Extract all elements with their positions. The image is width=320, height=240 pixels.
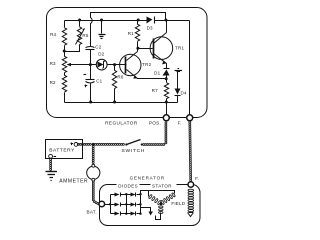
label R1	[128, 31, 134, 36]
node ground top	[100, 19, 103, 22]
wire node to ammeter	[92, 146, 94, 164]
svg-text:C1: C1	[96, 78, 102, 83]
resistor R7	[164, 79, 168, 103]
label AMMETER	[59, 178, 88, 184]
resistor R1	[135, 21, 139, 49]
wire BAT to bridge	[105, 204, 111, 206]
node R1 bottom / TR1 base	[136, 47, 139, 50]
wire top rail right segment	[155, 20, 190, 22]
wire F to generator field	[189, 121, 192, 181]
label D1	[154, 71, 160, 76]
node R6 bottom	[113, 101, 116, 104]
svg-text:STATOR: STATOR	[152, 183, 172, 188]
label R6	[117, 75, 123, 80]
transistor TR1	[138, 21, 173, 69]
svg-text:D2: D2	[98, 51, 104, 56]
label F. (regulator)	[178, 121, 182, 126]
switch	[125, 140, 143, 146]
node R4/R3 junction	[63, 50, 66, 53]
label R4	[50, 32, 56, 37]
label R7	[152, 88, 158, 93]
diode D3	[147, 17, 155, 24]
node battery/switch/ammeter	[92, 143, 95, 146]
label SWITCH	[122, 148, 146, 154]
svg-text:TR1: TR1	[175, 46, 184, 51]
label D3	[147, 25, 153, 30]
wire switch to POS corner	[143, 144, 165, 146]
svg-text:R3: R3	[50, 61, 56, 66]
svg-text:R7: R7	[152, 88, 158, 93]
svg-text:R4: R4	[50, 32, 56, 37]
node R7 bottom rail	[165, 101, 168, 104]
wire up to POS terminal	[165, 122, 167, 144]
ground (above D4)	[175, 69, 183, 72]
bridge diodes (6 rectifier diodes)	[111, 193, 141, 216]
battery + terminal	[71, 143, 78, 147]
label BATTERY	[49, 147, 75, 153]
label F. (generator)	[195, 176, 199, 181]
node A	[89, 63, 92, 66]
label C1	[96, 78, 102, 83]
svg-text:F.: F.	[178, 121, 182, 126]
capacitor C1	[86, 65, 95, 103]
node C1 bottom	[89, 101, 92, 104]
ground (top rail)	[99, 21, 106, 39]
wire to POS terminal	[166, 103, 168, 115]
label BAT.	[87, 209, 97, 214]
label D4	[180, 90, 186, 95]
svg-text:R5: R5	[82, 33, 88, 38]
label GENERATOR	[130, 176, 165, 181]
label DIODES	[117, 182, 140, 189]
C1 minus sign	[84, 74, 87, 76]
svg-text:TR2: TR2	[142, 62, 151, 67]
stator coil right arm	[161, 193, 176, 205]
terminal POS	[163, 115, 169, 121]
wire battery to node	[77, 143, 91, 145]
ammeter	[87, 164, 100, 181]
node B	[113, 63, 116, 66]
wire bottom rail	[65, 102, 167, 104]
node R5 top	[78, 19, 81, 22]
wire bridge to stator (top link)	[141, 191, 175, 197]
battery - terminal	[49, 154, 56, 158]
node R1 top	[137, 19, 140, 22]
node stator center	[160, 203, 163, 206]
node bridge left	[109, 203, 111, 205]
diode D1	[163, 69, 170, 79]
svg-text:C2: C2	[95, 45, 101, 50]
svg-text:R1: R1	[128, 31, 134, 36]
svg-text:AMMETER: AMMETER	[59, 178, 88, 184]
svg-text:FIELD: FIELD	[171, 201, 185, 206]
label TR1	[175, 46, 184, 51]
R3 wiper arrow	[67, 63, 91, 67]
svg-text:R6: R6	[117, 75, 123, 80]
resistor R2	[62, 75, 66, 102]
wire top rail to F terminal	[189, 21, 191, 115]
label R2	[50, 80, 56, 85]
svg-text:D4: D4	[180, 90, 186, 95]
resistor R4	[62, 21, 66, 52]
wire battery to ground	[50, 159, 52, 171]
wire R7 bottom to D4	[167, 102, 178, 104]
svg-text:BAT.: BAT.	[87, 209, 97, 214]
resistor R6	[112, 65, 116, 103]
svg-text:GENERATOR: GENERATOR	[130, 176, 165, 181]
diode D2 (zener)	[91, 59, 115, 70]
bridge middle rail	[125, 193, 127, 215]
terminal F (regulator)	[187, 115, 193, 121]
svg-text:F.: F.	[195, 176, 199, 181]
wire bridge to stator ground tee	[141, 208, 151, 212]
generator box outline	[100, 185, 201, 226]
capacitor C2	[86, 47, 95, 65]
label D2	[98, 51, 104, 56]
diode D4	[175, 72, 181, 103]
regulator box outline	[47, 8, 208, 118]
label STATOR	[151, 182, 177, 189]
svg-text:REGULATOR: REGULATOR	[105, 121, 138, 126]
svg-text:DIODES: DIODES	[118, 183, 138, 188]
node TR1 collector top	[164, 19, 167, 22]
label TR2	[142, 62, 151, 67]
node D1 bottom	[165, 77, 168, 80]
label REGULATOR	[105, 121, 138, 126]
svg-text:D3: D3	[147, 25, 153, 30]
transistor TR2	[115, 49, 167, 80]
label FIELD	[171, 201, 185, 206]
wire stator bottom stub	[156, 213, 161, 220]
ground (battery)	[46, 172, 58, 181]
resistor R3 (potentiometer)	[62, 52, 66, 76]
svg-text:BATTERY: BATTERY	[49, 147, 75, 153]
terminal F (generator)	[188, 182, 194, 188]
label C2	[95, 45, 101, 50]
ground arrow (field)	[188, 213, 194, 217]
stator coil bottom arm	[159, 206, 163, 214]
battery box	[46, 140, 83, 159]
label POS.	[149, 121, 161, 126]
wire ammeter to BAT terminal	[92, 181, 98, 205]
stator coil left arm	[148, 194, 161, 205]
svg-text:SWITCH: SWITCH	[122, 148, 146, 154]
svg-text:D1: D1	[154, 71, 160, 76]
wire top rail left segment	[65, 20, 147, 22]
svg-text:R2: R2	[50, 80, 56, 85]
resistor R5 (variable)	[65, 21, 85, 52]
wire node to switch	[94, 143, 124, 145]
wire C2 to top-right (with hop over rail)	[91, 13, 166, 47]
bridge output rail	[139, 193, 141, 215]
label R5	[82, 33, 88, 38]
label R3	[50, 61, 56, 66]
bridge left rail	[110, 195, 112, 214]
field coil	[188, 189, 194, 212]
svg-text:POS.: POS.	[149, 121, 161, 126]
C1 plus sign	[85, 85, 88, 88]
terminal BAT	[99, 201, 105, 207]
ground arrow (stator)	[149, 212, 154, 216]
